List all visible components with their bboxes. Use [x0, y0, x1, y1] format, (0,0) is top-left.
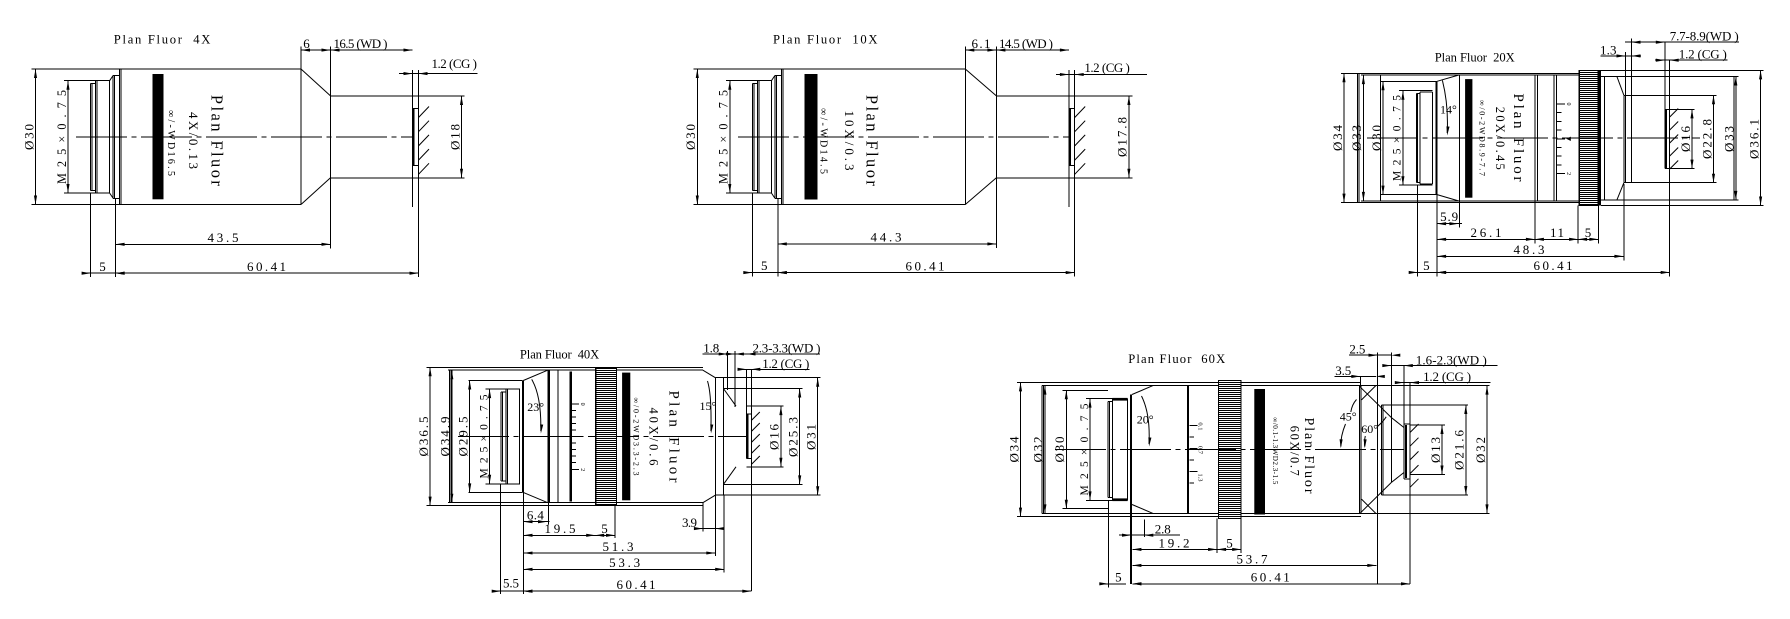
- svg-text:Ø36.1: Ø36.1: [1746, 119, 1761, 159]
- svg-text:Ø22.8: Ø22.8: [1699, 119, 1714, 159]
- dimension 2.3-3.3 WD: [726, 352, 735, 355]
- svg-text:14.5 (WD ): 14.5 (WD ): [999, 36, 1053, 51]
- dimension 53.3: [524, 568, 725, 570]
- dimension 1.2 CG: [1398, 382, 1491, 384]
- svg-text:Ø31: Ø31: [804, 424, 819, 450]
- svg-text:Ø34: Ø34: [1006, 436, 1021, 463]
- dimension 1.3: [1601, 55, 1642, 57]
- svg-text:48.3: 48.3: [1514, 242, 1545, 257]
- svg-text:11: 11: [1550, 225, 1564, 240]
- svg-text:7.7-8.9(WD ): 7.7-8.9(WD ): [1670, 29, 1739, 44]
- dimension 7.7-8.9 WD: [1625, 41, 1739, 43]
- dimension 19.2: [1132, 548, 1217, 550]
- flange face: [521, 381, 523, 493]
- svg-text:Ø16: Ø16: [767, 424, 782, 451]
- cover glass hatching: [419, 107, 430, 118]
- dimension 3.9: [697, 528, 720, 530]
- dimension diameter 17.8: [1128, 96, 1130, 178]
- svg-text:1.6-2.3(WD ): 1.6-2.3(WD ): [1416, 352, 1487, 367]
- thread M25 rear profile: [751, 84, 753, 191]
- flange collar: [774, 75, 776, 198]
- svg-text:60.41: 60.41: [247, 259, 286, 274]
- dimension thread M25x0.75: [729, 81, 731, 193]
- thread M25 profile: [500, 392, 502, 481]
- svg-text:60.41: 60.41: [617, 577, 656, 592]
- front recess: [723, 388, 802, 390]
- dimension diameter 34.9: [451, 370, 453, 503]
- svg-text:Ø17.8: Ø17.8: [1115, 117, 1130, 157]
- svg-text:5: 5: [1585, 225, 1592, 240]
- dimension diameter 22.8: [1713, 95, 1715, 182]
- dimension diameter 18: [461, 96, 463, 178]
- svg-text:Ø33: Ø33: [1349, 125, 1364, 151]
- rear barrel outline: [1361, 74, 1578, 76]
- flange face heavy line: [1130, 395, 1132, 584]
- dimension 60.41: [1132, 583, 1410, 585]
- dimension 5 knurl: [1578, 238, 1598, 240]
- knurled grip ring: [1579, 70, 1599, 205]
- svg-text:1.2 (CG ): 1.2 (CG ): [762, 356, 809, 371]
- svg-text:51.3: 51.3: [603, 539, 634, 554]
- dimension 1.2 CG: [738, 368, 809, 370]
- svg-text:5.5: 5.5: [503, 576, 519, 591]
- knurled grip ring: [595, 367, 617, 505]
- cover glass hatching: [1670, 109, 1679, 118]
- svg-text:∞/-WD14.5: ∞/-WD14.5: [818, 108, 829, 174]
- svg-text:2.3-3.3(WD ): 2.3-3.3(WD ): [753, 340, 821, 355]
- dimension 1.2 CG: [399, 73, 478, 75]
- svg-text:2.8: 2.8: [1155, 522, 1171, 537]
- correction collar scale: [1557, 103, 1565, 105]
- dimension 14.5 WD: [996, 49, 1069, 51]
- dimension diameter 36.5: [429, 367, 431, 505]
- dimension diameter 30: [1382, 81, 1384, 194]
- svg-text:60.41: 60.41: [1251, 570, 1290, 585]
- dimension 26.1: [1437, 238, 1535, 240]
- centre line: [76, 136, 413, 138]
- dimension diameter 25.3: [799, 389, 801, 485]
- svg-text:0: 0: [579, 403, 585, 406]
- svg-text:44.3: 44.3: [871, 229, 902, 244]
- svg-text:19.2: 19.2: [1159, 535, 1190, 550]
- svg-text:14°: 14°: [1440, 103, 1457, 117]
- dimension 1.2 CG: [1655, 59, 1727, 61]
- cover glass hatching: [1075, 107, 1086, 118]
- dimension 5.9: [1437, 223, 1458, 225]
- svg-text:5: 5: [1226, 535, 1233, 550]
- svg-text:0: 0: [1565, 103, 1571, 106]
- rear outline: [1017, 381, 1361, 383]
- dimension 6.1: [965, 49, 996, 51]
- extension lines: [1107, 500, 1109, 587]
- dimension diameter 31: [817, 378, 819, 496]
- svg-text:1.2 (CG ): 1.2 (CG ): [1679, 47, 1727, 62]
- svg-text:60.41: 60.41: [906, 258, 945, 273]
- svg-text:Ø34: Ø34: [1330, 125, 1345, 152]
- svg-text:Plan Fluor 60X: Plan Fluor 60X: [1128, 352, 1225, 366]
- rear cone 20 deg: [1132, 386, 1153, 395]
- svg-text:53.3: 53.3: [609, 555, 640, 570]
- svg-text:Plan Fluor 20X: Plan Fluor 20X: [1435, 51, 1515, 65]
- svg-text:26.1: 26.1: [1471, 225, 1502, 240]
- black identification band: [622, 373, 630, 501]
- cover glass: [1068, 70, 1070, 207]
- dimension 3.5: [1335, 375, 1376, 377]
- dimension 5.5 thread: [493, 590, 531, 592]
- ring joints: [1534, 75, 1536, 201]
- svg-text:Ø32: Ø32: [1473, 437, 1488, 463]
- main body barrel: [119, 69, 121, 205]
- dimension 60.41: [1437, 271, 1670, 273]
- cover glass: [1403, 366, 1405, 479]
- svg-text:45°: 45°: [1340, 409, 1357, 423]
- front barrel: [1601, 76, 1734, 78]
- correction collar index ring: [570, 372, 573, 502]
- dimension 16.5 WD: [331, 49, 413, 51]
- dimension thread M25x0.75: [1402, 91, 1404, 186]
- flange collar: [112, 75, 114, 198]
- centre line: [738, 136, 1069, 138]
- front aperture lines: [727, 351, 729, 390]
- svg-text:Ø34.9: Ø34.9: [438, 417, 453, 457]
- black identification band: [153, 74, 164, 199]
- svg-text:0.7: 0.7: [1196, 446, 1203, 455]
- dimension diameter 30: [35, 69, 37, 205]
- dimension diameter 29.5: [469, 381, 471, 493]
- centre line: [1055, 449, 1404, 451]
- dimension 60.41: [116, 272, 419, 274]
- dimension diameter 34: [1343, 73, 1345, 202]
- dimension 60.41: [778, 272, 1075, 274]
- extension lines: [1417, 185, 1419, 276]
- svg-text:15°: 15°: [700, 399, 717, 413]
- svg-text:5: 5: [601, 521, 608, 536]
- dimension diameter 13: [1441, 425, 1443, 475]
- ring joints: [548, 370, 550, 503]
- dimension thread M25x0.75: [1089, 399, 1091, 501]
- dimension 1.6-2.3 WD: [1387, 365, 1497, 367]
- front tip and optical axis lines: [996, 95, 1132, 97]
- front cone: [965, 69, 996, 96]
- dimension diameter 33: [1362, 75, 1364, 201]
- svg-text:1.8: 1.8: [703, 340, 719, 355]
- dimension 6.4: [524, 521, 548, 523]
- front recess lines: [1624, 94, 1717, 96]
- dimension diameter 32: [1044, 386, 1046, 514]
- svg-text:Ø13: Ø13: [1428, 437, 1443, 463]
- svg-text:2: 2: [1565, 172, 1571, 175]
- dimension diameter 30: [696, 69, 698, 205]
- dimension 1.2 CG: [1056, 74, 1147, 76]
- dimension 5 knurl: [595, 534, 615, 536]
- dimension diameter 33 front: [1735, 77, 1737, 200]
- svg-text:Plan Fluor: Plan Fluor: [863, 95, 882, 187]
- dimension diameter 36.1: [1760, 70, 1762, 205]
- svg-text:23°: 23°: [527, 400, 544, 414]
- front plate: [1377, 353, 1379, 585]
- dimension diameter 34: [1020, 382, 1022, 516]
- correction collar index ring: [1187, 386, 1189, 513]
- svg-text:2: 2: [579, 468, 585, 471]
- main body barrel: [780, 69, 782, 205]
- front cone: [301, 69, 331, 96]
- dimension 60.41: [524, 590, 752, 592]
- svg-text:3.5: 3.5: [1335, 363, 1351, 378]
- svg-text:Ø30: Ø30: [683, 124, 698, 150]
- front cone 15 deg: [703, 370, 715, 378]
- dimension 43.5: [116, 243, 331, 245]
- dimension 51.3: [524, 552, 716, 554]
- black identification band: [1465, 79, 1472, 198]
- dimension diameter 30: [1065, 390, 1067, 508]
- svg-text:16.5 (WD ): 16.5 (WD ): [334, 36, 388, 51]
- svg-text:0.1: 0.1: [1196, 422, 1203, 430]
- correction collar scale: [1189, 425, 1197, 427]
- svg-text:Ø25.3: Ø25.3: [786, 417, 801, 457]
- dimension diameter 16: [780, 406, 782, 467]
- svg-text:1.2 (CG ): 1.2 (CG ): [1084, 60, 1130, 75]
- svg-text:Ø18: Ø18: [447, 124, 462, 150]
- cover glass: [1664, 42, 1666, 168]
- dimension thread M25x0.75: [489, 389, 491, 484]
- correction collar scale: [572, 403, 579, 405]
- svg-text:1.2 (CG ): 1.2 (CG ): [1423, 369, 1471, 384]
- svg-text:Plan Fluor 4X: Plan Fluor 4X: [114, 32, 211, 46]
- svg-text:1.3: 1.3: [1600, 42, 1617, 57]
- thread M25 profile: [1107, 401, 1109, 497]
- front plate ring: [714, 378, 716, 496]
- cover glass hatching: [751, 412, 760, 421]
- cover glass hatching: [1410, 424, 1419, 433]
- svg-text:Plan Fluor 10X: Plan Fluor 10X: [773, 32, 878, 46]
- svg-text:43.5: 43.5: [208, 230, 239, 245]
- svg-text:6.4: 6.4: [527, 508, 545, 523]
- rear outline: [426, 366, 703, 368]
- thread M25 profile: [1415, 94, 1417, 183]
- svg-text:1.3: 1.3: [1196, 473, 1203, 481]
- dimension 1.8: [703, 353, 745, 355]
- svg-text:5: 5: [99, 259, 106, 274]
- svg-text:∞/-WD16.5: ∞/-WD16.5: [165, 110, 176, 176]
- svg-text:∞/0.1-1.3WD2.3-1.5: ∞/0.1-1.3WD2.3-1.5: [1271, 417, 1279, 484]
- cover glass: [746, 369, 748, 458]
- black identification band: [805, 74, 818, 200]
- svg-text:5.9: 5.9: [1440, 209, 1458, 224]
- svg-text:Ø21.6: Ø21.6: [1452, 430, 1467, 471]
- dimension 5 thread: [1410, 271, 1444, 273]
- svg-text:2.5: 2.5: [1349, 342, 1365, 357]
- extension lines: [751, 193, 753, 277]
- centre line: [1367, 137, 1700, 139]
- centre line: [458, 435, 747, 437]
- svg-text:Plan Fluor 40X: Plan Fluor 40X: [520, 347, 599, 361]
- extension lines: [500, 484, 502, 594]
- dimension 53.7: [1132, 564, 1376, 566]
- dimension 11: [1535, 238, 1578, 240]
- front tip and optical axis lines: [331, 95, 465, 97]
- svg-text:5: 5: [1115, 570, 1122, 585]
- svg-text:3.9: 3.9: [682, 515, 697, 530]
- rear cone 23 deg: [523, 370, 547, 380]
- dimension 48.3: [1437, 255, 1623, 257]
- svg-text:Ø16: Ø16: [1678, 126, 1693, 153]
- dimension 5 knurl: [1217, 548, 1241, 550]
- svg-text:60°: 60°: [1361, 422, 1378, 436]
- front retaining ring: [1625, 52, 1627, 183]
- svg-text:1.2 (CG ): 1.2 (CG ): [432, 56, 478, 71]
- svg-text:19.5: 19.5: [545, 521, 576, 536]
- rear cone 14 deg: [1437, 75, 1459, 81]
- svg-text:Ø33: Ø33: [1722, 126, 1737, 152]
- rear outline lip: [1357, 73, 1359, 202]
- dimension 19.5: [524, 534, 596, 536]
- dimension 2.5: [1349, 354, 1392, 356]
- dimension diameter 32 front: [1486, 386, 1488, 514]
- dimension 2.8: [1119, 534, 1180, 536]
- dimension thread M25x0.75: [67, 81, 69, 193]
- svg-text:5: 5: [761, 258, 768, 273]
- cover glass: [412, 70, 414, 207]
- extension lines: [90, 193, 92, 277]
- svg-text:Plan Fluor: Plan Fluor: [1301, 418, 1316, 494]
- svg-text:Ø30: Ø30: [21, 124, 36, 150]
- front cone 45 deg: [1359, 386, 1361, 514]
- svg-text:5: 5: [1423, 258, 1430, 273]
- flange face: [1435, 81, 1437, 194]
- black identification band: [1254, 389, 1265, 515]
- svg-text:6.1: 6.1: [972, 36, 991, 51]
- dimension diameter 21.6: [1465, 405, 1467, 495]
- dimension 6: [301, 49, 331, 51]
- svg-text:Plan Fluor: Plan Fluor: [208, 95, 227, 187]
- dimension 5 thread length: [82, 272, 124, 274]
- svg-text:60.41: 60.41: [1534, 258, 1573, 273]
- dimension 44.3: [778, 243, 997, 245]
- svg-text:6: 6: [303, 36, 310, 51]
- svg-text:Ø36.5: Ø36.5: [416, 417, 431, 457]
- thread M25 rear profile: [90, 84, 92, 191]
- dimension 5 thread length: [744, 272, 786, 274]
- dimension diameter 16: [1691, 109, 1693, 168]
- black band after knurl: [1598, 70, 1601, 205]
- knurled grip ring: [1218, 381, 1242, 519]
- front inner cone 60 deg: [1391, 418, 1404, 428]
- dimension 5 thread: [1101, 583, 1127, 585]
- svg-text:20°: 20°: [1137, 413, 1154, 427]
